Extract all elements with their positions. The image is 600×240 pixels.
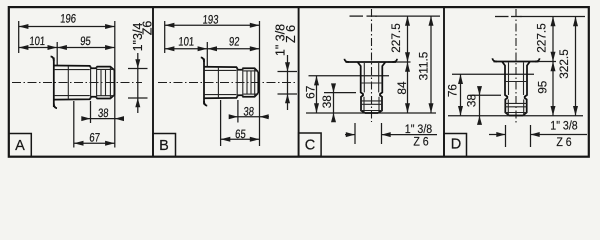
- right profile D: [523, 62, 530, 116]
- bottom profile B: [204, 93, 258, 98]
- neck vertical left B: [236, 67, 238, 98]
- thread flank C1: [361, 100, 382, 102]
- centerline C vertical: [371, 9, 373, 122]
- arrow C 67 top (up): [314, 76, 319, 86]
- thread dia dim line D right tail: [531, 134, 588, 136]
- svg-text:193: 193: [202, 14, 219, 27]
- inner taper line bottom B: [204, 94, 236, 96]
- divider B/C: [298, 8, 300, 156]
- left face B: [203, 59, 205, 105]
- label box C: [299, 133, 322, 156]
- tip face B: [257, 72, 259, 93]
- arrow D 322.5 bottom (down): [573, 106, 578, 116]
- dim line C 227.5: [407, 16, 409, 62]
- dim line A 38: [82, 118, 124, 120]
- thread flank C2: [361, 103, 382, 105]
- arrow B 92 right: [250, 46, 260, 51]
- arrow D 38 bottom (up outside): [477, 116, 482, 125]
- svg-text:Z6: Z6: [141, 21, 155, 36]
- svg-text:D: D: [451, 137, 461, 153]
- ext line left datum A: [18, 21, 20, 53]
- thread dia dim line C left tail: [345, 134, 355, 136]
- arrow A 101 right: [48, 45, 58, 50]
- outer frame: [9, 7, 589, 157]
- arrow A 95 right: [105, 45, 115, 50]
- svg-text:1" 3/8: 1" 3/8: [405, 123, 432, 136]
- arrow C 227.5 bottom (down): [405, 52, 410, 62]
- gauge dash C: [361, 82, 383, 84]
- dim line D 227.5: [552, 17, 554, 62]
- ext line right B shared: [259, 21, 261, 146]
- gauge dash D: [505, 81, 527, 83]
- arrow D 227.5 bottom (down): [551, 52, 556, 62]
- tip edge D: [509, 115, 523, 117]
- arrow A 67 right: [105, 141, 115, 146]
- chamfer vertical A: [109, 67, 111, 99]
- arrow B 38 right outside: [260, 114, 269, 119]
- thread dia ext bottom B: [278, 93, 298, 95]
- ext line C 38 top: [324, 92, 356, 94]
- arrow D 95 top (up): [551, 62, 556, 72]
- thread dia ext left D: [505, 125, 507, 147]
- svg-text:38: 38: [320, 95, 334, 109]
- dim line D 76: [460, 74, 462, 115]
- part C: [344, 59, 397, 113]
- taper vertical A: [67, 66, 69, 100]
- neck vertical right B: [242, 67, 244, 97]
- chamfer line D: [505, 112, 526, 114]
- part A: [51, 56, 115, 108]
- svg-text:67: 67: [304, 86, 318, 99]
- ext line D tip level: [448, 115, 583, 117]
- svg-text:38: 38: [97, 107, 108, 120]
- inner taper line right D: [523, 63, 525, 96]
- thread dia ext bottom A: [128, 97, 148, 99]
- arrow C dia left (right-pointing): [346, 132, 355, 137]
- table line C center cross: [367, 15, 378, 17]
- svg-text:B: B: [159, 138, 169, 154]
- svg-text:C: C: [305, 138, 315, 154]
- left profile D: [502, 62, 509, 116]
- table line D solid right: [521, 16, 586, 18]
- svg-text:322.5: 322.5: [557, 49, 571, 79]
- svg-text:95: 95: [536, 80, 550, 94]
- svg-text:101: 101: [29, 35, 46, 48]
- thread root top A: [97, 68, 114, 70]
- arrow A dia top (down): [135, 59, 140, 68]
- thread dia dim line D left tail: [489, 134, 506, 136]
- divider C/D: [443, 8, 445, 156]
- svg-text:311.5: 311.5: [417, 51, 431, 80]
- arrow A 95 left: [57, 45, 67, 50]
- arrow B 101 right: [198, 46, 208, 51]
- arrow C 84 bottom (down): [405, 103, 410, 113]
- inner taper line top B: [204, 69, 236, 71]
- arrow D 76 top (up): [458, 74, 463, 84]
- dim line B 101: [165, 48, 208, 50]
- arrow D 322.5 top (up): [573, 17, 578, 27]
- thread root right D: [523, 99, 525, 115]
- arrow A 196 left: [19, 24, 29, 29]
- arrow A 67 left: [74, 141, 84, 146]
- ext line C flange bottom left: [309, 75, 390, 77]
- arrow C 84 top (up): [405, 62, 410, 72]
- svg-text:Z 6: Z 6: [284, 25, 298, 43]
- hook right C: [393, 59, 398, 62]
- top profile B: [204, 67, 258, 72]
- arrow D dia right (left-pointing): [531, 132, 540, 137]
- thread root left C: [363, 97, 365, 113]
- dim line B 65: [221, 138, 260, 140]
- thread dia dim line C right tail: [382, 134, 438, 136]
- thread root bottom B: [243, 93, 258, 95]
- thread dia ext left C: [354, 123, 356, 144]
- flange line D: [494, 61, 539, 63]
- inner taper line right C: [378, 63, 380, 92]
- ext line middle A (101/95): [56, 42, 58, 66]
- ext line C tip level: [306, 112, 436, 114]
- thread flank A1: [100, 69, 102, 95]
- arrow B 193 right: [250, 23, 260, 28]
- arrow B 92 left: [207, 46, 217, 51]
- dim line C 84: [407, 62, 409, 113]
- dim line B 92: [207, 48, 259, 50]
- label box A: [9, 134, 32, 157]
- svg-text:92: 92: [228, 36, 239, 49]
- table line C dash left: [350, 15, 364, 17]
- svg-text:A: A: [15, 138, 25, 154]
- arrow B dia top (down): [285, 62, 290, 71]
- arrow C 311.5 top (up): [429, 16, 434, 26]
- thread flank B1: [246, 71, 248, 94]
- arrow B 38 left outside: [229, 114, 238, 119]
- inner taper line top A: [54, 69, 90, 71]
- ext line B 65 left: [220, 100, 222, 146]
- inner taper line left C: [363, 63, 365, 92]
- arrow C 227.5 top (up): [405, 16, 410, 26]
- inner taper line left D: [508, 63, 510, 96]
- arrow A dia bottom (up): [135, 98, 140, 107]
- thread flank D2: [505, 106, 526, 108]
- thread flank B2: [250, 71, 252, 94]
- svg-text:Z 6: Z 6: [556, 137, 571, 150]
- ext line middle B: [206, 42, 208, 67]
- dim line C 311.5: [430, 16, 432, 113]
- thread root top B: [243, 70, 258, 72]
- label box B: [153, 134, 176, 157]
- neck vertical left A: [90, 66, 92, 99]
- dim line D 322.5: [575, 17, 577, 116]
- arrow B 101 left: [165, 46, 175, 51]
- arrow C dia right (left-pointing): [382, 132, 391, 137]
- svg-text:38: 38: [465, 94, 479, 108]
- svg-text:101: 101: [178, 36, 195, 49]
- hook top A: [51, 56, 54, 61]
- neck vertical right A: [96, 66, 98, 98]
- svg-text:196: 196: [60, 13, 77, 26]
- arrow B 65 right: [250, 137, 260, 142]
- arrow C 311.5 bottom (down): [429, 103, 434, 113]
- tip edge C: [365, 112, 378, 114]
- hook top B: [201, 57, 204, 62]
- svg-text:38: 38: [243, 105, 254, 118]
- left face A: [53, 58, 55, 108]
- svg-text:1" 3/8: 1" 3/8: [550, 120, 577, 133]
- dim line A 196: [19, 26, 115, 28]
- arrow C 67 bottom (down): [314, 103, 319, 113]
- svg-text:76: 76: [446, 84, 460, 98]
- arrow B 193 left: [165, 23, 175, 28]
- chamfer line C: [361, 110, 382, 112]
- arrow A 101 left: [19, 45, 29, 50]
- arrow D 38 top (down outside): [477, 86, 482, 95]
- arrow D 95 bottom (down): [551, 106, 556, 116]
- ext line right A shared: [114, 21, 116, 148]
- inner taper line bottom A: [54, 95, 90, 97]
- svg-text:67: 67: [89, 131, 100, 144]
- hook right D: [535, 58, 540, 61]
- dim line A 95: [57, 47, 115, 49]
- thread dia ext top B: [278, 71, 298, 73]
- dim line D 95: [552, 62, 554, 116]
- thread dia dim line A: [137, 53, 139, 113]
- dim line B 38: [229, 116, 269, 118]
- thread dia ext top A: [128, 68, 148, 70]
- dim line C 38: [333, 84, 335, 122]
- arrow D dia left (right-pointing): [496, 132, 505, 137]
- ext line D flange top right: [532, 61, 556, 63]
- chamfer vertical B: [254, 68, 256, 96]
- thread root bottom A: [97, 95, 114, 97]
- arrow A 196 right: [105, 24, 115, 29]
- ext line A 67 left: [73, 101, 75, 148]
- right profile C: [378, 62, 386, 113]
- thread root right C: [378, 97, 380, 113]
- svg-text:Z 6: Z 6: [413, 136, 428, 149]
- hook bottom B: [204, 101, 207, 106]
- ext line D flange bottom left: [452, 73, 534, 75]
- part D: [492, 58, 539, 115]
- arrow C 38 top (down outside): [331, 83, 336, 92]
- arrow B dia bottom (up): [285, 94, 290, 103]
- ext line D 38 top: [470, 94, 501, 96]
- arrow B 65 left: [221, 137, 231, 142]
- hook bottom A: [54, 104, 57, 109]
- svg-text:65: 65: [235, 128, 246, 141]
- thread flank D1: [505, 102, 526, 104]
- thread dia ext right C: [381, 123, 383, 144]
- thread dia ext right D: [530, 125, 532, 147]
- thread root left D: [507, 99, 509, 115]
- table line D center cross: [511, 16, 522, 18]
- svg-text:84: 84: [395, 81, 409, 95]
- centerline A: [12, 82, 142, 84]
- table line C solid right: [375, 15, 440, 17]
- thread dia dim line B: [287, 55, 289, 110]
- divider A/B: [152, 8, 154, 156]
- tip face A: [113, 70, 115, 95]
- bottom profile A: [54, 95, 115, 100]
- ext line C flange top right: [388, 61, 411, 63]
- svg-text:227.5: 227.5: [535, 23, 549, 53]
- svg-text:95: 95: [80, 35, 91, 48]
- dim line A 101: [19, 47, 58, 49]
- arrow D 227.5 top (up): [551, 17, 556, 27]
- hook left D: [492, 58, 497, 61]
- left profile C: [358, 62, 366, 113]
- part B: [201, 57, 258, 105]
- arrow D 76 bottom (down): [458, 106, 463, 116]
- ext line left datum B: [164, 21, 166, 53]
- ext line B 38 left: [237, 100, 239, 123]
- dim line D 38: [479, 87, 481, 124]
- table line D dash left: [495, 16, 509, 18]
- label box D: [444, 134, 467, 157]
- centerline D vertical: [515, 9, 517, 125]
- taper vertical B: [217, 67, 219, 98]
- arrow C 38 bottom (up outside): [331, 113, 336, 122]
- arrow A 38 right outside: [115, 116, 124, 121]
- dim line B 193: [165, 24, 260, 26]
- dim line C 67: [316, 76, 318, 113]
- arrow A 38 left outside: [81, 116, 90, 121]
- flange line C: [346, 61, 397, 63]
- hook left C: [344, 59, 349, 62]
- svg-text:227.5: 227.5: [389, 23, 403, 53]
- ext line A 38 left: [90, 101, 92, 123]
- thread flank A2: [105, 69, 107, 95]
- dim line A 67: [74, 142, 115, 144]
- top profile A: [54, 66, 115, 71]
- centerline B: [158, 82, 295, 84]
